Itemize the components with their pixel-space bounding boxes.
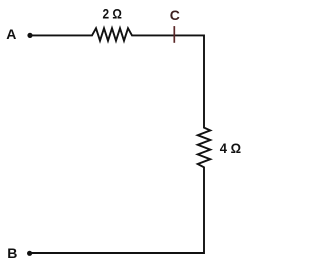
svg-text:A: A — [6, 26, 16, 42]
svg-text:B: B — [7, 245, 17, 261]
svg-text:C: C — [170, 7, 180, 23]
svg-text:4 Ω: 4 Ω — [220, 140, 241, 156]
svg-text:2 Ω: 2 Ω — [103, 6, 122, 22]
